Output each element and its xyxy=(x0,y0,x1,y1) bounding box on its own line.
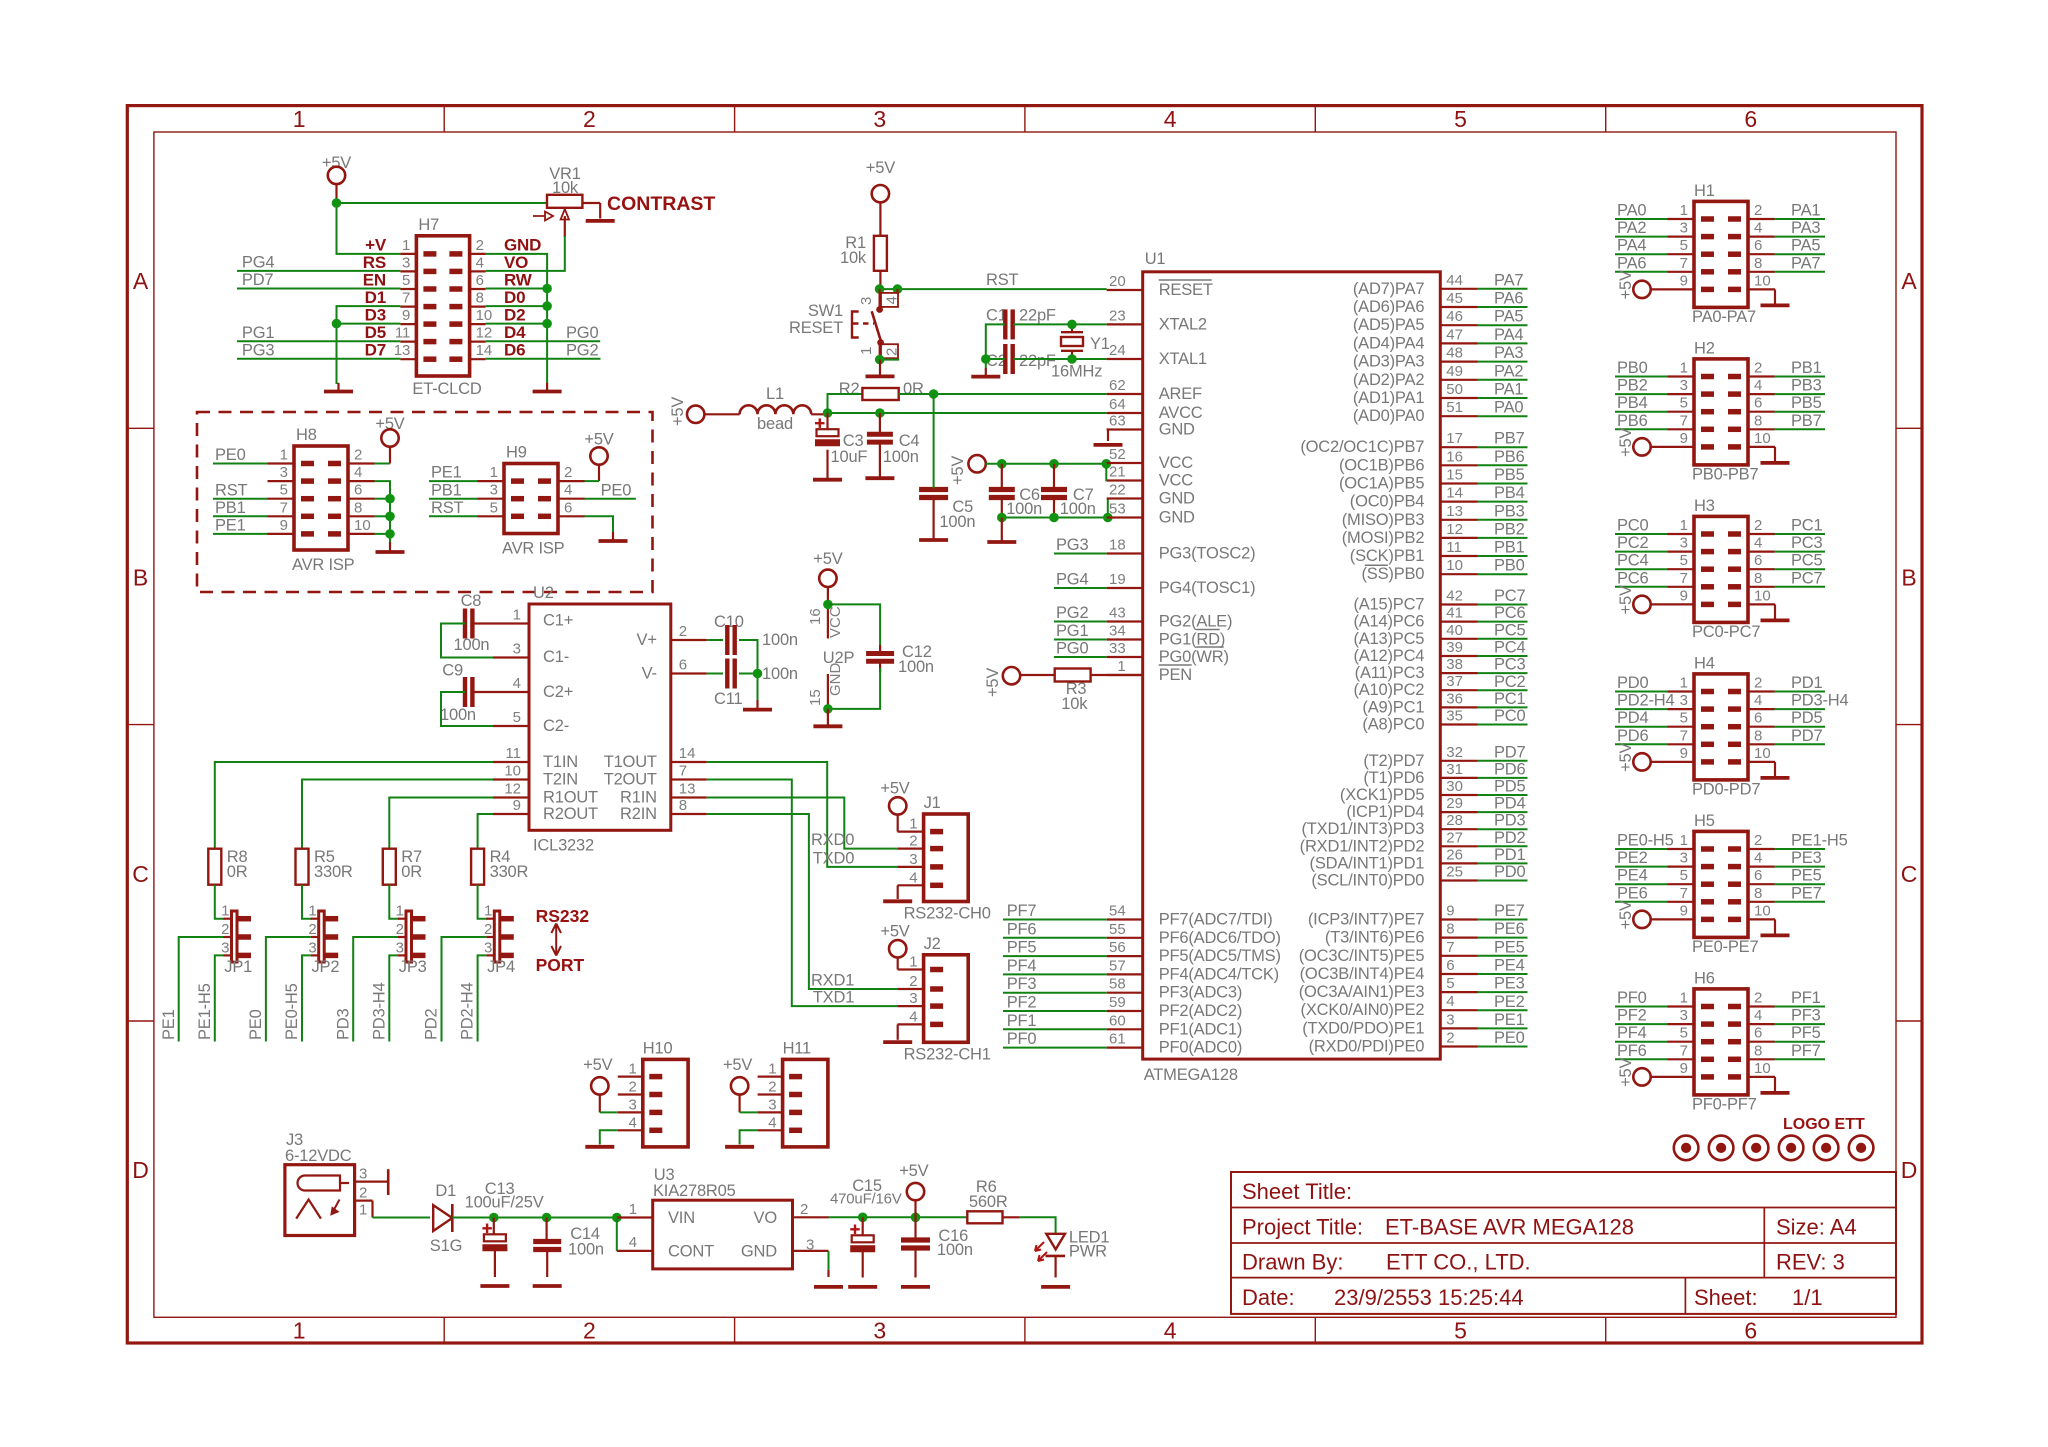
svg-text:L1: L1 xyxy=(766,385,784,403)
svg-text:RST: RST xyxy=(986,271,1019,289)
svg-text:(A14)PC6: (A14)PC6 xyxy=(1353,613,1424,631)
svg-text:1: 1 xyxy=(909,816,917,833)
svg-text:2: 2 xyxy=(884,348,901,356)
svg-text:5: 5 xyxy=(1680,395,1688,412)
wire / net label PD2-H4 xyxy=(1668,708,1695,710)
svg-text:PG2: PG2 xyxy=(566,341,598,359)
wire U2 V+ to C10 xyxy=(707,639,723,641)
wire JP3 pin3 / net label PD3-H4 xyxy=(389,955,398,1041)
svg-text:33: 33 xyxy=(1109,640,1126,657)
svg-text:PF5: PF5 xyxy=(1007,939,1037,957)
svg-text:Drawn By:: Drawn By: xyxy=(1242,1250,1343,1275)
wire / net label PE3 from U1 pin 5 xyxy=(1440,991,1478,993)
wire C6 ground stub xyxy=(1001,518,1003,534)
wire U2 R1OUT to R7 xyxy=(389,798,493,849)
svg-text:PE0-H5: PE0-H5 xyxy=(283,983,301,1040)
svg-text:34: 34 xyxy=(1109,623,1126,640)
wire / net label PC4 from U1 pin 39 xyxy=(1440,655,1478,657)
svg-text:PE1-H5: PE1-H5 xyxy=(196,983,214,1040)
svg-text:5: 5 xyxy=(1454,1318,1467,1344)
svg-text:H1: H1 xyxy=(1694,182,1715,200)
svg-text:PC6: PC6 xyxy=(1617,569,1649,587)
svg-text:14: 14 xyxy=(476,342,493,359)
svg-text:6: 6 xyxy=(1754,237,1762,254)
svg-text:H2: H2 xyxy=(1694,339,1715,357)
svg-text:330R: 330R xyxy=(314,863,353,881)
ground below H7 left xyxy=(337,383,339,392)
svg-text:62: 62 xyxy=(1109,377,1126,394)
svg-text:10: 10 xyxy=(1754,430,1771,447)
svg-text:2: 2 xyxy=(359,1185,367,1202)
svg-text:16: 16 xyxy=(807,608,824,625)
svg-text:JP3: JP3 xyxy=(399,958,427,976)
svg-text:PC3: PC3 xyxy=(1791,534,1823,552)
svg-text:(A8)PC0: (A8)PC0 xyxy=(1362,716,1424,734)
svg-text:PF2(ADC2): PF2(ADC2) xyxy=(1159,1002,1242,1020)
svg-text:KIA278R05: KIA278R05 xyxy=(653,1182,736,1200)
svg-text:(OC3C/INT5)PE5: (OC3C/INT5)PE5 xyxy=(1299,947,1425,965)
wire / net label PA6 from U1 pin 45 xyxy=(1440,306,1478,308)
svg-text:R1IN: R1IN xyxy=(620,789,657,807)
svg-text:ETT CO., LTD.: ETT CO., LTD. xyxy=(1386,1250,1531,1275)
svg-text:7: 7 xyxy=(1680,412,1688,429)
svg-text:60: 60 xyxy=(1109,1012,1126,1029)
wire JP1 pin3 / net label PE1-H5 xyxy=(215,955,224,1041)
svg-text:(A9)PC1: (A9)PC1 xyxy=(1362,698,1424,716)
ground at H1 pin 10 xyxy=(1748,288,1775,290)
svg-text:3: 3 xyxy=(221,939,229,956)
wire / net label PC0 xyxy=(1668,533,1695,535)
svg-text:6: 6 xyxy=(1754,552,1762,569)
svg-text:100n: 100n xyxy=(939,513,975,531)
ground below C4 xyxy=(879,469,881,478)
svg-text:1: 1 xyxy=(513,607,521,624)
wire ground bus to U1 pins 22/53 xyxy=(1002,499,1108,518)
wire / net label PG0 from H7 D4 xyxy=(486,340,601,342)
wire / net label PC6 from U1 pin 41 xyxy=(1440,620,1478,622)
svg-text:5: 5 xyxy=(490,499,498,516)
svg-text:330R: 330R xyxy=(490,863,529,881)
ground below H9 pin6 xyxy=(612,532,614,541)
svg-text:8: 8 xyxy=(354,499,362,516)
svg-text:PF2: PF2 xyxy=(1617,1007,1647,1025)
svg-text:10k: 10k xyxy=(1061,695,1088,713)
svg-text:PF4(ADC4/TCK): PF4(ADC4/TCK) xyxy=(1159,965,1279,983)
wire / net label PD4 from U1 pin 29 xyxy=(1440,811,1478,813)
svg-text:11: 11 xyxy=(395,325,411,342)
ground at H6 pin 10 xyxy=(1748,1076,1775,1078)
svg-text:6-12VDC: 6-12VDC xyxy=(285,1147,352,1165)
svg-text:ET-CLCD: ET-CLCD xyxy=(412,380,481,398)
ground below LED1 xyxy=(1041,1285,1070,1289)
svg-text:4: 4 xyxy=(476,254,484,271)
svg-text:PA5: PA5 xyxy=(1791,237,1820,255)
wire / net label PF3 xyxy=(1748,1023,1775,1025)
svg-text:14: 14 xyxy=(1446,485,1463,502)
svg-text:PE1: PE1 xyxy=(160,1009,178,1040)
capacitor C3 10uF polar xyxy=(817,429,839,436)
wire / net label PC3 from U1 pin 38 xyxy=(1440,672,1478,674)
svg-text:6: 6 xyxy=(679,657,687,674)
svg-text:40: 40 xyxy=(1446,622,1463,639)
svg-text:(AD3)PA3: (AD3)PA3 xyxy=(1353,353,1424,371)
wire JP2 pin2 / net label PE0 xyxy=(266,937,311,1042)
svg-text:8: 8 xyxy=(1754,1042,1762,1059)
connector H7 box xyxy=(416,236,469,376)
junction U2P VCC xyxy=(823,600,833,610)
svg-text:C2+: C2+ xyxy=(543,683,573,701)
connector J1 box xyxy=(924,814,969,902)
wire / net label PB5 xyxy=(1748,411,1775,413)
ground below C14 xyxy=(533,1284,562,1288)
wire / net label PB6 from U1 pin 16 xyxy=(1440,464,1478,466)
wire C1/C2 left to ground xyxy=(986,324,1005,368)
svg-text:3: 3 xyxy=(768,1096,776,1113)
wire / net label PE7 xyxy=(1748,901,1775,903)
svg-text:(OC1B)PB6: (OC1B)PB6 xyxy=(1339,456,1424,474)
wire / net label PD1 xyxy=(1748,690,1775,692)
junction C14 xyxy=(542,1213,552,1223)
svg-text:PF5(ADC5/TMS): PF5(ADC5/TMS) xyxy=(1159,947,1281,965)
svg-text:PC5: PC5 xyxy=(1494,621,1526,639)
svg-text:PG2(ALE): PG2(ALE) xyxy=(1159,613,1233,631)
svg-text:30: 30 xyxy=(1446,778,1463,795)
svg-text:37: 37 xyxy=(1446,673,1463,690)
svg-text:51: 51 xyxy=(1446,399,1463,416)
wire / net label PC5 from U1 pin 40 xyxy=(1440,638,1478,640)
svg-text:PD2: PD2 xyxy=(423,1008,441,1040)
svg-text:PF6(ADC6/TDO): PF6(ADC6/TDO) xyxy=(1159,929,1281,947)
wire / net label PA6 xyxy=(1668,271,1695,273)
svg-text:R2IN: R2IN xyxy=(620,805,657,823)
capacitor C7 100n xyxy=(1041,487,1067,492)
svg-text:EN: EN xyxy=(363,271,386,290)
ground at H2 pin 10 xyxy=(1748,446,1775,448)
svg-text:18: 18 xyxy=(1109,537,1126,554)
wire VCC bus to U1 pins 52/21 xyxy=(986,464,1107,481)
svg-text:D6: D6 xyxy=(504,341,525,360)
svg-text:RST: RST xyxy=(215,481,248,499)
wire AVCC net from L1 xyxy=(828,412,1107,414)
H6 pin dashes xyxy=(1701,1004,1714,1010)
svg-text:B: B xyxy=(133,565,148,591)
svg-text:JP1: JP1 xyxy=(224,958,252,976)
connector H11 box xyxy=(783,1059,828,1147)
svg-text:R1OUT: R1OUT xyxy=(543,789,598,807)
svg-text:0R: 0R xyxy=(903,380,924,398)
svg-text:0R: 0R xyxy=(401,863,422,881)
svg-text:3: 3 xyxy=(858,297,875,305)
ground at H5 pin 10 xyxy=(1748,918,1775,920)
svg-text:PE0-H5: PE0-H5 xyxy=(1617,832,1674,850)
svg-text:100n: 100n xyxy=(883,448,919,466)
svg-text:(TXD1/INT3)PD3: (TXD1/INT3)PD3 xyxy=(1301,820,1424,838)
svg-text:TXD0: TXD0 xyxy=(813,849,854,867)
svg-text:PB7: PB7 xyxy=(1791,412,1822,430)
svg-text:47: 47 xyxy=(1446,326,1463,343)
svg-text:+5V: +5V xyxy=(583,1056,612,1074)
svg-text:(MISO)PB3: (MISO)PB3 xyxy=(1342,511,1425,529)
wire / net label PD1 from U1 pin 26 xyxy=(1440,862,1478,864)
svg-text:PB1: PB1 xyxy=(215,499,246,517)
svg-text:H3: H3 xyxy=(1694,497,1715,515)
svg-text:D3: D3 xyxy=(365,306,386,325)
svg-text:PE1: PE1 xyxy=(215,517,246,535)
svg-text:+5V: +5V xyxy=(1617,585,1635,614)
svg-text:15: 15 xyxy=(1446,467,1463,484)
svg-text:2: 2 xyxy=(679,623,687,640)
svg-text:4: 4 xyxy=(1164,1318,1177,1344)
svg-text:PG3: PG3 xyxy=(1056,536,1088,554)
svg-text:PG1: PG1 xyxy=(242,324,274,342)
svg-text:PG3(TOSC2): PG3(TOSC2) xyxy=(1159,545,1256,563)
wire / net label PE2 xyxy=(1668,865,1695,867)
svg-text:PG0: PG0 xyxy=(566,324,598,342)
junction C16 +5V node xyxy=(911,1213,921,1223)
svg-text:PF5: PF5 xyxy=(1791,1024,1821,1042)
sheet frame inner border xyxy=(154,132,1896,1317)
svg-text:(A12)PC4: (A12)PC4 xyxy=(1353,647,1424,665)
svg-text:7: 7 xyxy=(679,763,687,780)
svg-text:52: 52 xyxy=(1109,446,1126,463)
wire J2 pin4 to ground xyxy=(897,1024,899,1039)
svg-text:+5V: +5V xyxy=(880,923,909,941)
ground at U1 pin 63 xyxy=(1107,428,1108,430)
capacitor C6 100n xyxy=(989,487,1015,492)
svg-text:+5V: +5V xyxy=(984,668,1002,697)
svg-text:PG4(TOSC1): PG4(TOSC1) xyxy=(1159,579,1256,597)
svg-text:2: 2 xyxy=(354,447,362,464)
svg-text:54: 54 xyxy=(1109,903,1126,920)
svg-text:PC0: PC0 xyxy=(1617,517,1649,535)
svg-text:RS232: RS232 xyxy=(536,906,590,926)
svg-text:S1G: S1G xyxy=(430,1237,462,1255)
svg-text:10: 10 xyxy=(354,517,371,534)
wire / net label PD7 from U1 pin 32 xyxy=(1440,760,1478,762)
svg-text:(AD6)PA6: (AD6)PA6 xyxy=(1353,298,1424,316)
connector H1 box xyxy=(1694,201,1748,307)
svg-text:PB4: PB4 xyxy=(1617,394,1648,412)
ground below C15 xyxy=(848,1285,877,1289)
svg-text:H9: H9 xyxy=(506,444,527,462)
svg-text:6: 6 xyxy=(354,482,362,499)
svg-text:PF1: PF1 xyxy=(1007,1012,1037,1030)
svg-text:10: 10 xyxy=(1754,745,1771,762)
svg-text:PA1: PA1 xyxy=(1494,381,1523,399)
svg-text:23/9/2553 15:25:44: 23/9/2553 15:25:44 xyxy=(1334,1285,1524,1310)
wire H8 pins 4,6,8,10 to ground xyxy=(375,481,391,544)
svg-text:16MHz: 16MHz xyxy=(1051,363,1102,381)
svg-text:8: 8 xyxy=(1754,255,1762,272)
svg-text:(AD0)PA0: (AD0)PA0 xyxy=(1353,407,1424,425)
svg-text:PF7: PF7 xyxy=(1791,1042,1821,1060)
svg-text:9: 9 xyxy=(1680,272,1688,289)
svg-text:4: 4 xyxy=(629,1234,637,1251)
title block outline xyxy=(1231,1172,1896,1314)
svg-text:2: 2 xyxy=(1754,517,1762,534)
svg-text:7: 7 xyxy=(1680,727,1688,744)
svg-text:6: 6 xyxy=(1744,106,1757,132)
wire R7 to JP3 pin1 xyxy=(389,885,399,919)
svg-text:+5V: +5V xyxy=(1617,1057,1635,1086)
IC U2 ICL3232 box xyxy=(529,604,671,830)
svg-text:2: 2 xyxy=(476,237,484,254)
svg-text:4: 4 xyxy=(768,1114,776,1131)
svg-text:PA6: PA6 xyxy=(1494,290,1523,308)
svg-text:PB1: PB1 xyxy=(1791,359,1822,377)
+5V supply at H6 pin 9 xyxy=(1633,1068,1650,1085)
wire / net label PC7 from U1 pin 42 xyxy=(1440,603,1478,605)
svg-text:H10: H10 xyxy=(643,1039,673,1057)
wire / net label PF2 to U1 pin 59 xyxy=(1107,1010,1143,1012)
svg-text:PE2: PE2 xyxy=(1494,993,1525,1011)
svg-text:PD1: PD1 xyxy=(1494,846,1526,864)
svg-text:1: 1 xyxy=(1117,658,1125,675)
wire J3 pin1 to D1 xyxy=(373,1217,431,1219)
svg-text:15: 15 xyxy=(807,689,824,706)
svg-text:PE3: PE3 xyxy=(1791,849,1822,867)
connector H10 box xyxy=(643,1059,688,1147)
wire JP1 pin2 / net label PE1 xyxy=(179,937,224,1042)
svg-text:C8: C8 xyxy=(461,592,482,610)
svg-text:Project Title:: Project Title: xyxy=(1242,1215,1363,1240)
svg-text:PD7: PD7 xyxy=(242,271,274,289)
svg-text:PC2: PC2 xyxy=(1494,673,1526,691)
svg-text:(XCK0/AIN0)PE2: (XCK0/AIN0)PE2 xyxy=(1301,1001,1425,1019)
wire / net label PF4 xyxy=(1668,1041,1695,1043)
svg-text:1: 1 xyxy=(1680,202,1688,219)
svg-text:4: 4 xyxy=(1754,850,1762,867)
svg-text:VCC: VCC xyxy=(1159,472,1194,490)
wire / net label PB4 xyxy=(1668,411,1695,413)
svg-text:PA0-PA7: PA0-PA7 xyxy=(1692,308,1756,326)
frame column/row tick marks xyxy=(127,106,1922,1343)
svg-text:4: 4 xyxy=(564,482,572,499)
svg-text:Y1: Y1 xyxy=(1090,335,1110,353)
wire / net label PE1 from U1 pin 3 xyxy=(1440,1027,1478,1029)
svg-text:PA4: PA4 xyxy=(1617,237,1646,255)
svg-text:2: 2 xyxy=(1754,832,1762,849)
wire U3 VO to C15/C16/R6 xyxy=(793,1216,829,1218)
svg-text:8: 8 xyxy=(1754,570,1762,587)
svg-text:(T2)PD7: (T2)PD7 xyxy=(1363,752,1424,770)
svg-text:+5V: +5V xyxy=(949,456,967,485)
J2 pin dashes xyxy=(930,967,943,973)
svg-text:PB4: PB4 xyxy=(1494,484,1525,502)
svg-text:PB1: PB1 xyxy=(1494,539,1525,557)
svg-text:100n: 100n xyxy=(568,1241,604,1259)
svg-text:(MOSI)PB2: (MOSI)PB2 xyxy=(1342,529,1425,547)
svg-text:PG1(RD): PG1(RD) xyxy=(1159,631,1225,649)
wire / net label PD3 from U1 pin 28 xyxy=(1440,828,1478,830)
svg-text:6: 6 xyxy=(1744,1318,1757,1344)
svg-text:4: 4 xyxy=(513,675,521,692)
svg-text:5: 5 xyxy=(513,709,521,726)
wire / net label PF1 to U1 pin 60 xyxy=(1107,1028,1143,1030)
svg-text:8: 8 xyxy=(1754,727,1762,744)
svg-text:Sheet Title:: Sheet Title: xyxy=(1242,1179,1352,1204)
wire / net label PB7 from U1 pin 17 xyxy=(1440,446,1478,448)
wire / net label PD0 xyxy=(1668,690,1695,692)
svg-text:PB3: PB3 xyxy=(1791,377,1822,395)
wire / net label PE0 H9 pin4 xyxy=(585,498,636,500)
svg-text:1: 1 xyxy=(293,1318,306,1344)
svg-text:PA6: PA6 xyxy=(1617,254,1646,272)
svg-text:9: 9 xyxy=(280,517,288,534)
svg-text:9: 9 xyxy=(402,307,410,324)
svg-text:PD1: PD1 xyxy=(1791,674,1823,692)
ground below H7 right xyxy=(546,383,548,392)
svg-text:10: 10 xyxy=(1446,557,1463,574)
wire C9 to U2 C2+/C2- xyxy=(472,691,493,693)
junction SW1 ground node xyxy=(875,355,885,365)
ground below C3 xyxy=(826,470,828,480)
capacitor C4 100n xyxy=(867,432,893,437)
svg-text:(AD1)PA1: (AD1)PA1 xyxy=(1353,389,1424,407)
svg-text:D0: D0 xyxy=(504,288,525,307)
svg-text:PD3-H4: PD3-H4 xyxy=(1791,692,1849,710)
wire / net label PD3-H4 xyxy=(1748,708,1775,710)
svg-text:PF3(ADC3): PF3(ADC3) xyxy=(1159,984,1242,1002)
svg-text:J2: J2 xyxy=(924,935,941,953)
svg-text:T1OUT: T1OUT xyxy=(604,753,657,771)
svg-text:1: 1 xyxy=(1680,990,1688,1007)
svg-text:LOGO ETT: LOGO ETT xyxy=(1783,1116,1865,1133)
wire / net label PA2 from U1 pin 49 xyxy=(1440,379,1478,381)
svg-text:PE5: PE5 xyxy=(1791,867,1822,885)
J1 pin numbers and stubs xyxy=(898,830,924,832)
connector H2 box xyxy=(1694,359,1748,465)
svg-text:1: 1 xyxy=(1680,675,1688,692)
svg-text:3: 3 xyxy=(490,482,498,499)
svg-text:10: 10 xyxy=(1754,587,1771,604)
junction L1/C3/C4/AVCC xyxy=(823,408,833,418)
ground below C16 xyxy=(901,1285,930,1289)
svg-text:PE6: PE6 xyxy=(1494,920,1525,938)
svg-text:H4: H4 xyxy=(1694,654,1715,672)
svg-text:T2OUT: T2OUT xyxy=(604,771,657,789)
svg-text:TXD1: TXD1 xyxy=(813,989,854,1007)
svg-text:PA0: PA0 xyxy=(1494,399,1523,417)
svg-text:PD2-H4: PD2-H4 xyxy=(459,982,477,1040)
junctions crystal net xyxy=(1067,320,1077,330)
svg-text:9: 9 xyxy=(513,797,521,814)
svg-text:PC1: PC1 xyxy=(1791,517,1823,535)
svg-text:27: 27 xyxy=(1446,829,1463,846)
wire / net label PE5 xyxy=(1748,883,1775,885)
svg-text:6: 6 xyxy=(476,272,484,289)
wire / net label PB1 xyxy=(1748,375,1775,377)
wire / net label PG2 from H7 D6 xyxy=(486,358,601,360)
svg-text:PORT: PORT xyxy=(536,955,585,975)
wire / net label PD5 from U1 pin 30 xyxy=(1440,794,1478,796)
svg-text:4: 4 xyxy=(1754,1007,1762,1024)
svg-text:JP4: JP4 xyxy=(487,958,515,976)
wire H11 pin4 to ground xyxy=(740,1130,758,1144)
junction D3 column xyxy=(332,319,342,329)
svg-text:(OC3B/INT4)PE4: (OC3B/INT4)PE4 xyxy=(1300,965,1425,983)
svg-text:1: 1 xyxy=(484,903,492,920)
H8 pin dashes xyxy=(301,461,314,467)
svg-text:PD6: PD6 xyxy=(1494,760,1526,778)
wire J3 node to U3 CONT xyxy=(616,1218,618,1251)
svg-text:24: 24 xyxy=(1109,342,1126,359)
svg-text:D: D xyxy=(132,1157,149,1183)
H11 pin dashes xyxy=(789,1074,802,1080)
svg-text:GND: GND xyxy=(1159,421,1195,439)
jumper JP2 xyxy=(319,911,325,962)
svg-text:11: 11 xyxy=(505,745,521,762)
